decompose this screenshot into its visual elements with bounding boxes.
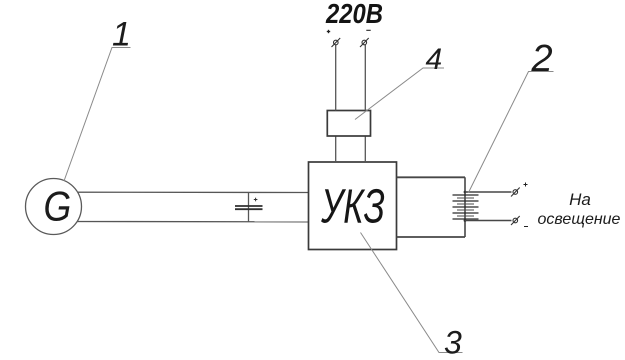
capacitor plus sign — [254, 198, 258, 202]
svg-text:G: G — [44, 184, 72, 230]
svg-text:освещение: освещение — [538, 211, 621, 228]
wire left vertical to box4 — [335, 136, 337, 162]
battery GB1 plates — [453, 195, 479, 219]
plus sign 220V left — [327, 30, 330, 33]
terminal left 220V — [332, 38, 341, 47]
wire UKZ right top — [397, 176, 466, 178]
svg-text:3: 3 — [444, 325, 462, 360]
svg-text:1: 1 — [112, 16, 131, 54]
generator G1 circle — [26, 179, 82, 235]
terminal plus output — [511, 188, 520, 197]
leader line 1 — [64, 48, 131, 182]
wire battery to plus terminal — [465, 191, 512, 193]
UKZ box (block 3) — [309, 162, 397, 250]
wire top generator to UKZ box — [60, 191, 309, 193]
leader line 3 — [361, 233, 463, 353]
terminal minus output — [511, 216, 520, 225]
capacitor C1 bottom plate — [235, 208, 263, 210]
junction dot battery minus — [464, 219, 467, 222]
wire battery vertical — [464, 177, 466, 237]
minus sign 220V right — [366, 29, 370, 31]
wire UKZ right bottom — [397, 236, 466, 238]
svg-text:На: На — [569, 190, 591, 209]
capacitor C1 vertical wire — [248, 192, 250, 221]
box 4 (rectifier block) — [327, 111, 370, 137]
svg-text:УКЗ: УКЗ — [320, 179, 384, 233]
wire right vertical terminal to box4 — [364, 45, 366, 111]
svg-text:220В: 220В — [325, 0, 383, 29]
wire battery to minus terminal — [465, 220, 512, 222]
terminal right 220V — [360, 38, 369, 47]
leader line 4 — [355, 68, 444, 120]
junction dot battery plus — [464, 191, 467, 194]
plus sign output — [524, 183, 528, 187]
wire bottom generator to UKZ box — [60, 221, 309, 223]
wire right vertical to box4 — [364, 136, 366, 162]
capacitor C1 top plate — [235, 205, 263, 207]
wire left vertical terminal to box4 — [335, 45, 337, 111]
leader line 2 — [469, 72, 554, 193]
svg-text:2: 2 — [531, 38, 553, 80]
minus sign output — [524, 226, 528, 228]
svg-text:4: 4 — [426, 43, 443, 76]
